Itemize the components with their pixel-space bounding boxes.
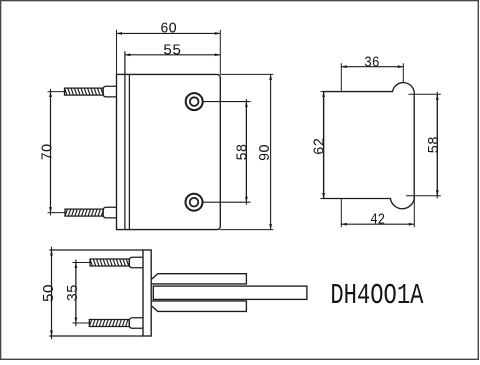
dim 62 arrows on left edge: [323, 92, 325, 199]
bottom view back plate: [143, 250, 151, 336]
dim 36 extension lines: [340, 63, 342, 91]
extension line to screw: [48, 212, 67, 214]
screw thread: [65, 209, 103, 216]
front view plate body: [117, 74, 221, 229]
svg-text:62: 62: [311, 138, 328, 155]
extension line to screw: [48, 91, 67, 93]
svg-text:58: 58: [235, 144, 252, 161]
screw thread: [90, 259, 129, 266]
extension line to screw: [73, 262, 92, 264]
svg-text:42: 42: [370, 212, 385, 229]
bottom view channel bottom wall: [49, 335, 143, 337]
dim 42 extension lines: [340, 199, 342, 228]
glass panel: [153, 286, 307, 299]
svg-text:55: 55: [163, 42, 181, 59]
svg-text:6O: 6O: [160, 21, 177, 38]
hole top (circle): [186, 93, 203, 110]
dim 90 line: [270, 74, 272, 229]
clamp pad bottom: [151, 301, 246, 312]
svg-text:58: 58: [426, 136, 443, 153]
screw thread: [89, 320, 129, 327]
dim 36 line: [341, 66, 403, 68]
plate fold line 1: [124, 51, 126, 229]
screw shank tip: [129, 257, 143, 268]
dim 58 leader top: [203, 101, 251, 103]
dim 58 side extension lines: [409, 93, 441, 95]
svg-text:7O: 7O: [39, 144, 56, 161]
screw thread: [65, 88, 104, 95]
svg-text:DH4OO1A: DH4OO1A: [330, 279, 424, 312]
extension line to screw: [73, 322, 91, 324]
plate fold line 2: [128, 74, 130, 229]
dim 58 line: [245, 99, 247, 205]
bottom view channel top wall: [49, 249, 143, 251]
svg-text:5O: 5O: [41, 284, 58, 302]
dim 50 line: [51, 247, 53, 339]
dim 60 line: [117, 32, 221, 34]
side view body outline: [324, 83, 415, 209]
dim 58 leader bottom: [202, 201, 250, 203]
screw shank tip: [129, 318, 143, 329]
dim 70 line: [50, 89, 52, 216]
dim 58 side line: [436, 92, 438, 198]
screw shank tip: [103, 207, 116, 218]
screw shank tip: [103, 86, 116, 97]
hole bottom (circle): [186, 194, 203, 211]
svg-text:9O: 9O: [257, 144, 274, 161]
dim 35 line: [75, 259, 77, 326]
dim 90 extension lines: [220, 73, 273, 75]
clamp pad top: [151, 274, 246, 284]
dim 42 line: [341, 223, 414, 225]
top edge overshoot left: [321, 91, 324, 93]
svg-text:35: 35: [65, 284, 82, 301]
dim 60 extension lines: [116, 30, 118, 75]
svg-text:36: 36: [364, 54, 380, 71]
dim 55 line: [125, 54, 220, 56]
